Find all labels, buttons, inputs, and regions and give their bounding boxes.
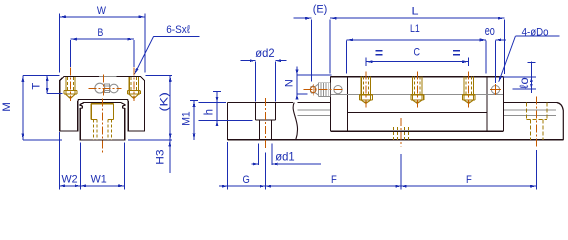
svg-text:L: L <box>412 5 419 17</box>
svg-text:F: F <box>466 174 472 186</box>
svg-text:N: N <box>284 79 296 87</box>
svg-text:L1: L1 <box>410 23 420 35</box>
svg-text:(K): (K) <box>158 92 170 112</box>
svg-text:ød1: ød1 <box>275 149 294 163</box>
svg-text:(E): (E) <box>313 3 328 15</box>
svg-text:M1: M1 <box>180 111 192 126</box>
svg-text:B: B <box>98 27 104 39</box>
svg-text:h: h <box>203 109 215 115</box>
svg-text:eo: eo <box>485 23 495 38</box>
svg-text:ød2: ød2 <box>255 46 274 60</box>
svg-text:W1: W1 <box>91 174 107 186</box>
svg-text:W2: W2 <box>62 174 78 186</box>
svg-text:G: G <box>243 174 250 186</box>
svg-text:6-Sxℓ: 6-Sxℓ <box>166 24 190 36</box>
svg-text:4-øDo: 4-øDo <box>522 27 549 39</box>
svg-text:ℓo: ℓo <box>517 77 531 89</box>
svg-text:M: M <box>1 102 13 111</box>
svg-text:C: C <box>414 47 421 59</box>
svg-text:H3: H3 <box>154 149 166 164</box>
svg-text:T: T <box>31 83 43 90</box>
svg-text:F: F <box>331 174 337 186</box>
svg-text:W: W <box>97 5 106 17</box>
